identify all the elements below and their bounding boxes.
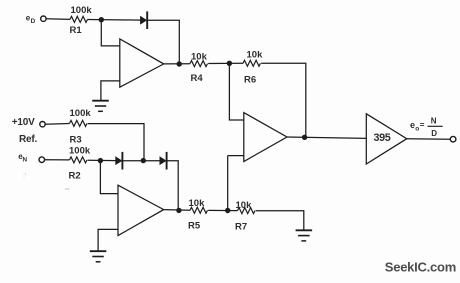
svg-text:o: o (415, 125, 419, 132)
svg-text:100k: 100k (70, 108, 92, 119)
svg-text:Ref.: Ref. (19, 134, 38, 145)
svg-text:R3: R3 (70, 134, 82, 145)
svg-text:R4: R4 (191, 73, 204, 84)
svg-text:R2: R2 (69, 170, 81, 181)
svg-text:10k: 10k (189, 198, 206, 209)
svg-text:10k: 10k (247, 49, 264, 60)
svg-text:10k: 10k (191, 51, 208, 62)
svg-text:100k: 100k (69, 146, 91, 157)
svg-text:R1: R1 (70, 25, 83, 36)
svg-text:R5: R5 (188, 221, 201, 232)
svg-text:R7: R7 (235, 222, 247, 233)
svg-text:N: N (23, 156, 28, 163)
svg-text:=: = (420, 121, 425, 130)
svg-text:N: N (431, 116, 437, 125)
svg-text:R6: R6 (244, 74, 256, 85)
svg-text:+10V: +10V (12, 117, 35, 128)
svg-text:SeekIC.com: SeekIC.com (385, 260, 456, 275)
svg-text:100k: 100k (71, 5, 93, 16)
svg-text:D: D (31, 18, 36, 25)
svg-text::': :' (23, 173, 26, 180)
svg-text:e: e (410, 120, 415, 130)
svg-text:395: 395 (374, 132, 391, 144)
svg-text:10k: 10k (236, 200, 253, 211)
svg-text:D: D (431, 129, 437, 138)
